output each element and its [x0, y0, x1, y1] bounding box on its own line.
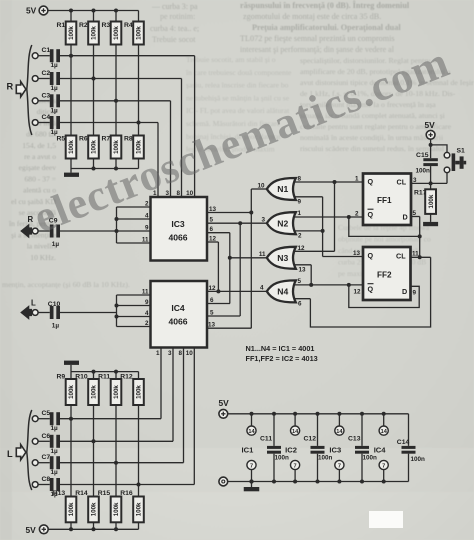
pin 7 of IC1 — [247, 460, 256, 469]
wire IC3 pin 4 — [117, 218, 151, 220]
terminal 0V — [219, 477, 228, 486]
wire N3 in13 — [294, 264, 312, 266]
node rail C13 top — [360, 412, 364, 416]
terminal C5 input — [32, 416, 38, 422]
wire R1 column down — [70, 45, 72, 136]
wire power rail top — [228, 413, 409, 415]
wire N4 in6 — [294, 298, 311, 300]
resistor R10 — [88, 379, 99, 405]
wire FF2 Q bus vertical — [322, 197, 324, 257]
capacitor C1 — [50, 49, 60, 62]
wire C3 row down to IC3 pin 3 — [170, 101, 172, 197]
wire input to C2 — [38, 78, 50, 80]
wire IC4 pin 2 — [117, 326, 151, 328]
wire 5V to C15 — [430, 139, 432, 158]
wire R10 column down — [93, 405, 95, 497]
wire FF1 CL pin3 — [411, 182, 447, 184]
wire IC4 pin 11 — [117, 294, 151, 296]
node rail IC2 bottom — [293, 480, 297, 484]
node gnd rail R10 — [92, 370, 96, 374]
wire 5V rail to R2 — [93, 11, 95, 22]
pin 7 of IC4 — [379, 460, 388, 469]
wire gnd stem top group — [70, 169, 72, 173]
svg-text:electroschematics.com: electroschematics.com — [27, 37, 456, 242]
capacitor C4 — [50, 116, 60, 129]
node FF2 Qbar tap — [347, 283, 351, 287]
wire C2 row down to IC3 pin 8 — [181, 79, 183, 198]
wire gnd rail R9-R12 — [71, 371, 139, 373]
capacitor C5 — [50, 412, 60, 425]
terminal C7 input — [32, 460, 38, 466]
capacitor C11 — [267, 446, 281, 454]
resistor R4 — [133, 22, 144, 45]
resistor R7 — [111, 136, 122, 159]
node FF1 D — [418, 234, 422, 238]
resistor R11 — [111, 379, 122, 405]
wire pin5 bus — [239, 223, 241, 316]
wire C6 row to IC4 — [60, 440, 173, 442]
wire N2 in1 to FF1 Qbar — [294, 216, 364, 218]
node IC3-5 — [238, 221, 242, 225]
node IC4 bus pin9 — [115, 304, 119, 308]
node rail R14 — [92, 527, 96, 531]
IC4 4066 — [151, 281, 208, 348]
resistor R6 — [88, 136, 99, 159]
wire IC4 pin10 to C8 row — [193, 348, 195, 485]
wire IC3 output bus — [116, 207, 118, 243]
output L arrow — [20, 305, 32, 320]
wire R3 column down — [115, 45, 117, 136]
node rail IC1 bottom — [250, 480, 254, 484]
wire C11 to 0V rail — [273, 454, 275, 482]
terminal C6 input — [32, 438, 38, 444]
wire C14 to 0V rail — [408, 454, 410, 482]
input L arrow — [16, 445, 26, 460]
wire power rail bottom — [228, 481, 409, 483]
node 5V-S1 — [429, 143, 433, 147]
pin 14 of IC1 — [247, 426, 256, 435]
wire C13 to 0V rail — [361, 454, 363, 482]
wire C7 row to IC4 — [60, 462, 184, 464]
wire FF2 pin13 Q — [323, 256, 363, 258]
wire rail to C11 — [273, 414, 275, 446]
pin 14 of IC4 — [379, 426, 388, 435]
wire IC4 pin6 — [207, 303, 230, 305]
wire C2 row to IC3 — [60, 78, 182, 80]
wire R15 to 5V rail — [115, 522, 117, 529]
supply +5V bottom-left — [39, 525, 48, 534]
ground R17 — [423, 222, 438, 226]
input L brace — [27, 410, 32, 490]
wire IC3 pin5 / N2 output — [207, 222, 267, 224]
wire C15 to R17 — [430, 166, 432, 189]
node N2-2 tap — [321, 229, 325, 233]
wire rail corner to C14 — [408, 414, 410, 446]
wire R16 to 5V rail — [138, 522, 140, 529]
terminal L output — [32, 310, 38, 316]
wire input to C5 — [38, 418, 50, 420]
wire C9 to IC3 bus — [60, 230, 117, 232]
node IC4 bus pin4 — [115, 315, 119, 319]
wire N1 in9 — [294, 196, 323, 198]
wire rail to R9 — [70, 372, 72, 379]
wire FF2 CL pin11 — [411, 256, 431, 258]
node FF1 Q — [333, 180, 337, 184]
wire IC4 pin1 to C5 row — [160, 348, 162, 419]
wire C4 row down to IC3 pin 1 — [157, 123, 159, 198]
node rail C12 top — [316, 412, 320, 416]
wire rail to R10 — [93, 372, 95, 379]
capacitor C15 — [423, 158, 438, 166]
flip-flop FF1 — [363, 174, 411, 226]
node clock — [429, 181, 433, 185]
resistor R14 — [88, 497, 99, 523]
node rail R13 — [69, 527, 73, 531]
wire input to C1 — [38, 55, 50, 57]
resistor R3 — [111, 22, 122, 45]
wire R13 to 5V rail — [70, 522, 72, 529]
wire IC3 pin 2 — [117, 206, 151, 208]
IC3 4066 — [151, 197, 208, 261]
node IC3 bus pin9 — [115, 229, 119, 233]
capacitor C7 — [50, 456, 60, 469]
wire pin6 bus — [229, 233, 231, 304]
node C2-R2 — [92, 77, 96, 81]
wire R17 to ground — [430, 214, 432, 222]
wire IC3 pin 11 — [117, 242, 151, 244]
wire C1 row down to IC3 pin 10 — [194, 56, 196, 197]
wire IC3 pin6 — [207, 232, 230, 234]
wire C8 row to IC4 — [60, 484, 195, 486]
resistor R12 — [133, 379, 144, 405]
capacitor C10 — [50, 306, 60, 319]
node FF2 CL — [418, 255, 422, 259]
wire N3 output — [230, 257, 267, 259]
wire gnd rail R5-R8 — [71, 168, 139, 170]
node gnd rail R6 — [92, 167, 96, 171]
wire IC3 pin12 — [207, 241, 218, 243]
wire input to C3 — [38, 100, 50, 102]
ground R5-R8 — [64, 173, 79, 177]
node C3-R3 — [114, 99, 118, 103]
node rail-R1 — [69, 9, 73, 13]
wire N4 in5 to FF2 Qbar — [294, 284, 364, 286]
node C7-R11 — [114, 461, 118, 465]
wire 5V rail to R3 — [115, 11, 117, 22]
wire N2 in2 — [294, 230, 323, 232]
node N3 output — [228, 256, 232, 260]
NOR gate N1 — [267, 178, 296, 200]
NOR gate N2 — [267, 212, 296, 234]
wire IC4 pin7 to 0V rail — [383, 470, 385, 482]
capacitor C2 — [50, 72, 60, 85]
ground R9-R12 — [64, 361, 79, 365]
(decorative) white patch — [369, 511, 403, 528]
terminal C8 input — [32, 482, 38, 488]
node C6-R10 — [92, 439, 96, 443]
wire C5 row to IC4 — [60, 418, 161, 420]
node rail-R2 — [92, 9, 96, 13]
wire C3 row to IC3 — [60, 100, 171, 102]
pin 7 of IC2 — [291, 460, 300, 469]
wire input to C4 — [38, 122, 50, 124]
node C8-R12 — [137, 483, 141, 487]
capacitor C14 — [402, 446, 416, 454]
node rail C13 bottom — [360, 480, 364, 484]
wire IC4 pin 9 — [117, 305, 151, 307]
resistor R1 — [66, 22, 77, 45]
capacitor C3 — [50, 94, 60, 107]
wire IC4 pin 4 — [117, 316, 151, 318]
wire rail to IC4 pin14 — [383, 414, 385, 426]
wire FF1 pin5 D — [411, 216, 420, 218]
resistor R5 — [66, 136, 77, 159]
wire IC4 pin5 — [207, 315, 240, 317]
wire N3 in12 — [294, 250, 335, 252]
flip-flop FF2 — [363, 247, 411, 300]
wire input to C6 — [38, 440, 50, 442]
wire FF2 Qbar to D loop — [349, 285, 419, 308]
supply +5V power rail — [219, 409, 228, 418]
wire IC4 pin12 / N4 output — [207, 290, 267, 292]
wire N1 output — [251, 188, 266, 190]
wire IC3 pin7 to 0V rail — [338, 470, 340, 482]
NOR gate N4 — [267, 280, 296, 302]
node C4-R4 — [137, 121, 141, 125]
resistor R16 — [133, 497, 144, 523]
node FF2 Qbar — [309, 283, 313, 287]
wire C1 row to IC3 — [60, 55, 195, 57]
pin 14 of IC3 — [335, 426, 344, 435]
wire IC4 pin3 to C6 row — [172, 348, 174, 442]
wire 5V rail to R1 — [70, 11, 72, 22]
node C5-R9 — [69, 417, 73, 421]
wire rail to IC2 pin14 — [294, 414, 296, 426]
wire 5V to S1 — [431, 145, 447, 152]
wire 5V rail top — [48, 10, 139, 12]
node rail C11 bottom — [272, 480, 276, 484]
node gnd rail R11 — [114, 370, 118, 374]
pin 7 of IC3 — [335, 460, 344, 469]
wire C10 to IC4 bus — [60, 312, 117, 314]
resistor R8 — [133, 136, 144, 159]
node IC3-13 — [249, 211, 253, 215]
terminal C3 input — [32, 98, 38, 104]
wire R8 to gnd rail — [138, 159, 140, 169]
terminal C1 input — [32, 53, 38, 59]
pin 14 of IC2 — [291, 426, 300, 435]
output R arrow — [20, 224, 32, 239]
node FF1 Qbar — [347, 215, 351, 219]
wire IC4 pin8 to C7 row — [183, 348, 185, 463]
resistor R9 — [66, 379, 77, 405]
wire R4 column down — [138, 45, 140, 136]
terminal C2 input — [32, 76, 38, 82]
wire gnd stem bottom group — [70, 365, 72, 372]
terminal S1 bottom — [444, 167, 450, 173]
wire rail to IC3 pin14 — [338, 414, 340, 426]
terminal R output — [32, 228, 38, 234]
resistor R17 — [425, 189, 436, 214]
terminal S1 top — [444, 152, 450, 158]
wire input to C7 — [38, 462, 50, 464]
node rail IC2 top — [293, 412, 297, 416]
wire IC4 output bus — [116, 295, 118, 327]
wire IC3 pin13 to N1 output node — [207, 212, 251, 214]
capacitor C13 — [355, 446, 369, 454]
wire S1 to clock line — [446, 173, 448, 184]
node rail C11 top — [272, 412, 276, 416]
wire FF1 Qbar to D loop — [349, 217, 420, 236]
node gnd rail R7 — [114, 167, 118, 171]
wire R12 column down — [138, 405, 140, 497]
wire rail to R11 — [115, 372, 117, 379]
wire rail to C12 — [317, 414, 319, 446]
resistor R13 — [66, 497, 77, 523]
wire C9 to R out terminal — [38, 230, 50, 232]
node rail R15 — [114, 527, 118, 531]
node IC4-12 — [216, 289, 220, 293]
wire N1 output bus (pins 13) — [250, 189, 252, 328]
wire 5V rail to R4 — [138, 11, 140, 22]
wire clock node to N4-6 — [310, 257, 430, 327]
wire N3-13 to FF2 Qbar vertical — [310, 265, 312, 285]
pushbutton S1 — [452, 153, 467, 171]
node IC3 bus pin4 — [115, 217, 119, 221]
resistor R15 — [111, 497, 122, 523]
wire pin12 bus — [217, 242, 219, 291]
node rail IC4 top — [382, 412, 386, 416]
supply +5V clock — [426, 130, 435, 139]
input R arrow — [16, 82, 26, 97]
wire R5 to gnd rail — [70, 159, 72, 169]
wire N3-12 to FF1 Q vertical — [334, 182, 336, 251]
wire IC4 pin13 — [207, 327, 251, 329]
wire C4 row to IC3 — [60, 122, 158, 124]
wire R9 column down — [70, 405, 72, 497]
wire R6 to gnd rail — [93, 159, 95, 169]
wire rail to C13 — [361, 414, 363, 446]
NOR gate N3 — [267, 247, 296, 269]
terminal C4 input — [32, 120, 38, 126]
wire N1 in8 to FF1 Q — [294, 181, 364, 183]
wire R14 to 5V rail — [93, 522, 95, 529]
node rail IC1 top — [250, 412, 254, 416]
resistor R2 — [88, 22, 99, 45]
wire 0V to ground — [251, 482, 253, 488]
capacitor C6 — [50, 435, 60, 448]
wire IC3 pin 9 — [117, 230, 151, 232]
wire IC2 pin7 to 0V rail — [294, 470, 296, 482]
node 0V ground tap — [250, 480, 254, 484]
wire R2 column down — [93, 45, 95, 136]
node rail C12 bottom — [316, 480, 320, 484]
wire R11 column down — [115, 405, 117, 497]
wire FF1 D junction vertical — [419, 217, 421, 258]
node rail IC4 bottom — [382, 480, 386, 484]
input R brace — [27, 45, 32, 135]
ground power rail — [244, 487, 260, 491]
node rail-R3 — [114, 9, 118, 13]
wire 5V rail bottom — [48, 528, 138, 530]
capacitor C9 — [50, 225, 60, 238]
wire C12 to 0V rail — [317, 454, 319, 482]
wire rail to R12 — [138, 372, 140, 379]
wire R7 to gnd rail — [115, 159, 117, 169]
wire IC1 pin7 to 0V rail — [251, 470, 253, 482]
wire C10 to L out terminal — [38, 312, 50, 314]
node rail IC3 bottom — [337, 480, 341, 484]
capacitor C12 — [311, 446, 325, 454]
wire rail to IC1 pin14 — [251, 414, 253, 426]
capacitor C8 — [50, 478, 60, 491]
node rail IC3 top — [337, 412, 341, 416]
wire input to C8 — [38, 484, 50, 486]
node C1-R1 — [69, 54, 73, 58]
supply +5V terminal top-left — [39, 6, 48, 15]
